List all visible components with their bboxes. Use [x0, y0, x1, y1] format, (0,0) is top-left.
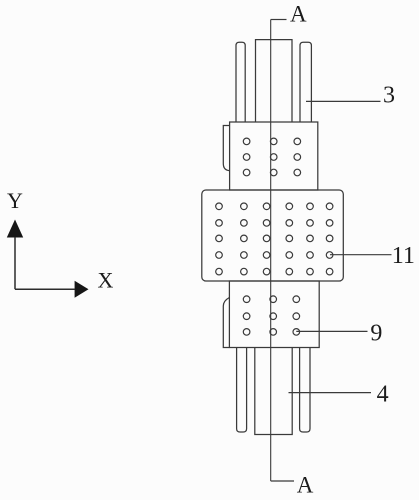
upper guide rod right (3) — [300, 42, 311, 122]
lower block (9) — [229, 281, 319, 348]
leader line 4 — [289, 392, 372, 394]
svg-text:Y: Y — [7, 188, 23, 213]
svg-text:4: 4 — [377, 382, 389, 408]
leader line 3 — [306, 100, 381, 102]
upper block — [230, 122, 318, 190]
svg-text:A: A — [297, 473, 314, 498]
lower guide rod right — [300, 348, 310, 433]
svg-text:3: 3 — [383, 83, 395, 109]
leader line 9 — [296, 330, 367, 332]
svg-text:A: A — [290, 2, 307, 27]
bolt hole grid upper block — [243, 138, 300, 176]
svg-text:9: 9 — [370, 320, 382, 346]
lower guide rod left — [237, 348, 247, 433]
wide flange block (11) — [202, 190, 343, 281]
axis Y arrowhead — [7, 220, 23, 238]
upper guide rod left — [236, 42, 245, 122]
bolt hole grid lower block — [243, 296, 299, 335]
axis X line — [15, 288, 75, 290]
section line A-A — [270, 20, 272, 482]
upper left tab — [223, 126, 229, 171]
section tick bottom — [271, 480, 294, 482]
upper central column — [256, 40, 293, 122]
section tick top — [271, 19, 287, 21]
svg-text:X: X — [98, 267, 114, 292]
lower central column (4) — [255, 348, 292, 435]
axis Y line — [14, 237, 16, 289]
leader line 11 — [330, 254, 392, 256]
bolt hole grid wide block — [216, 203, 333, 275]
svg-text:11: 11 — [392, 243, 415, 269]
axis X arrowhead — [75, 281, 89, 298]
lower left tab — [223, 298, 229, 348]
